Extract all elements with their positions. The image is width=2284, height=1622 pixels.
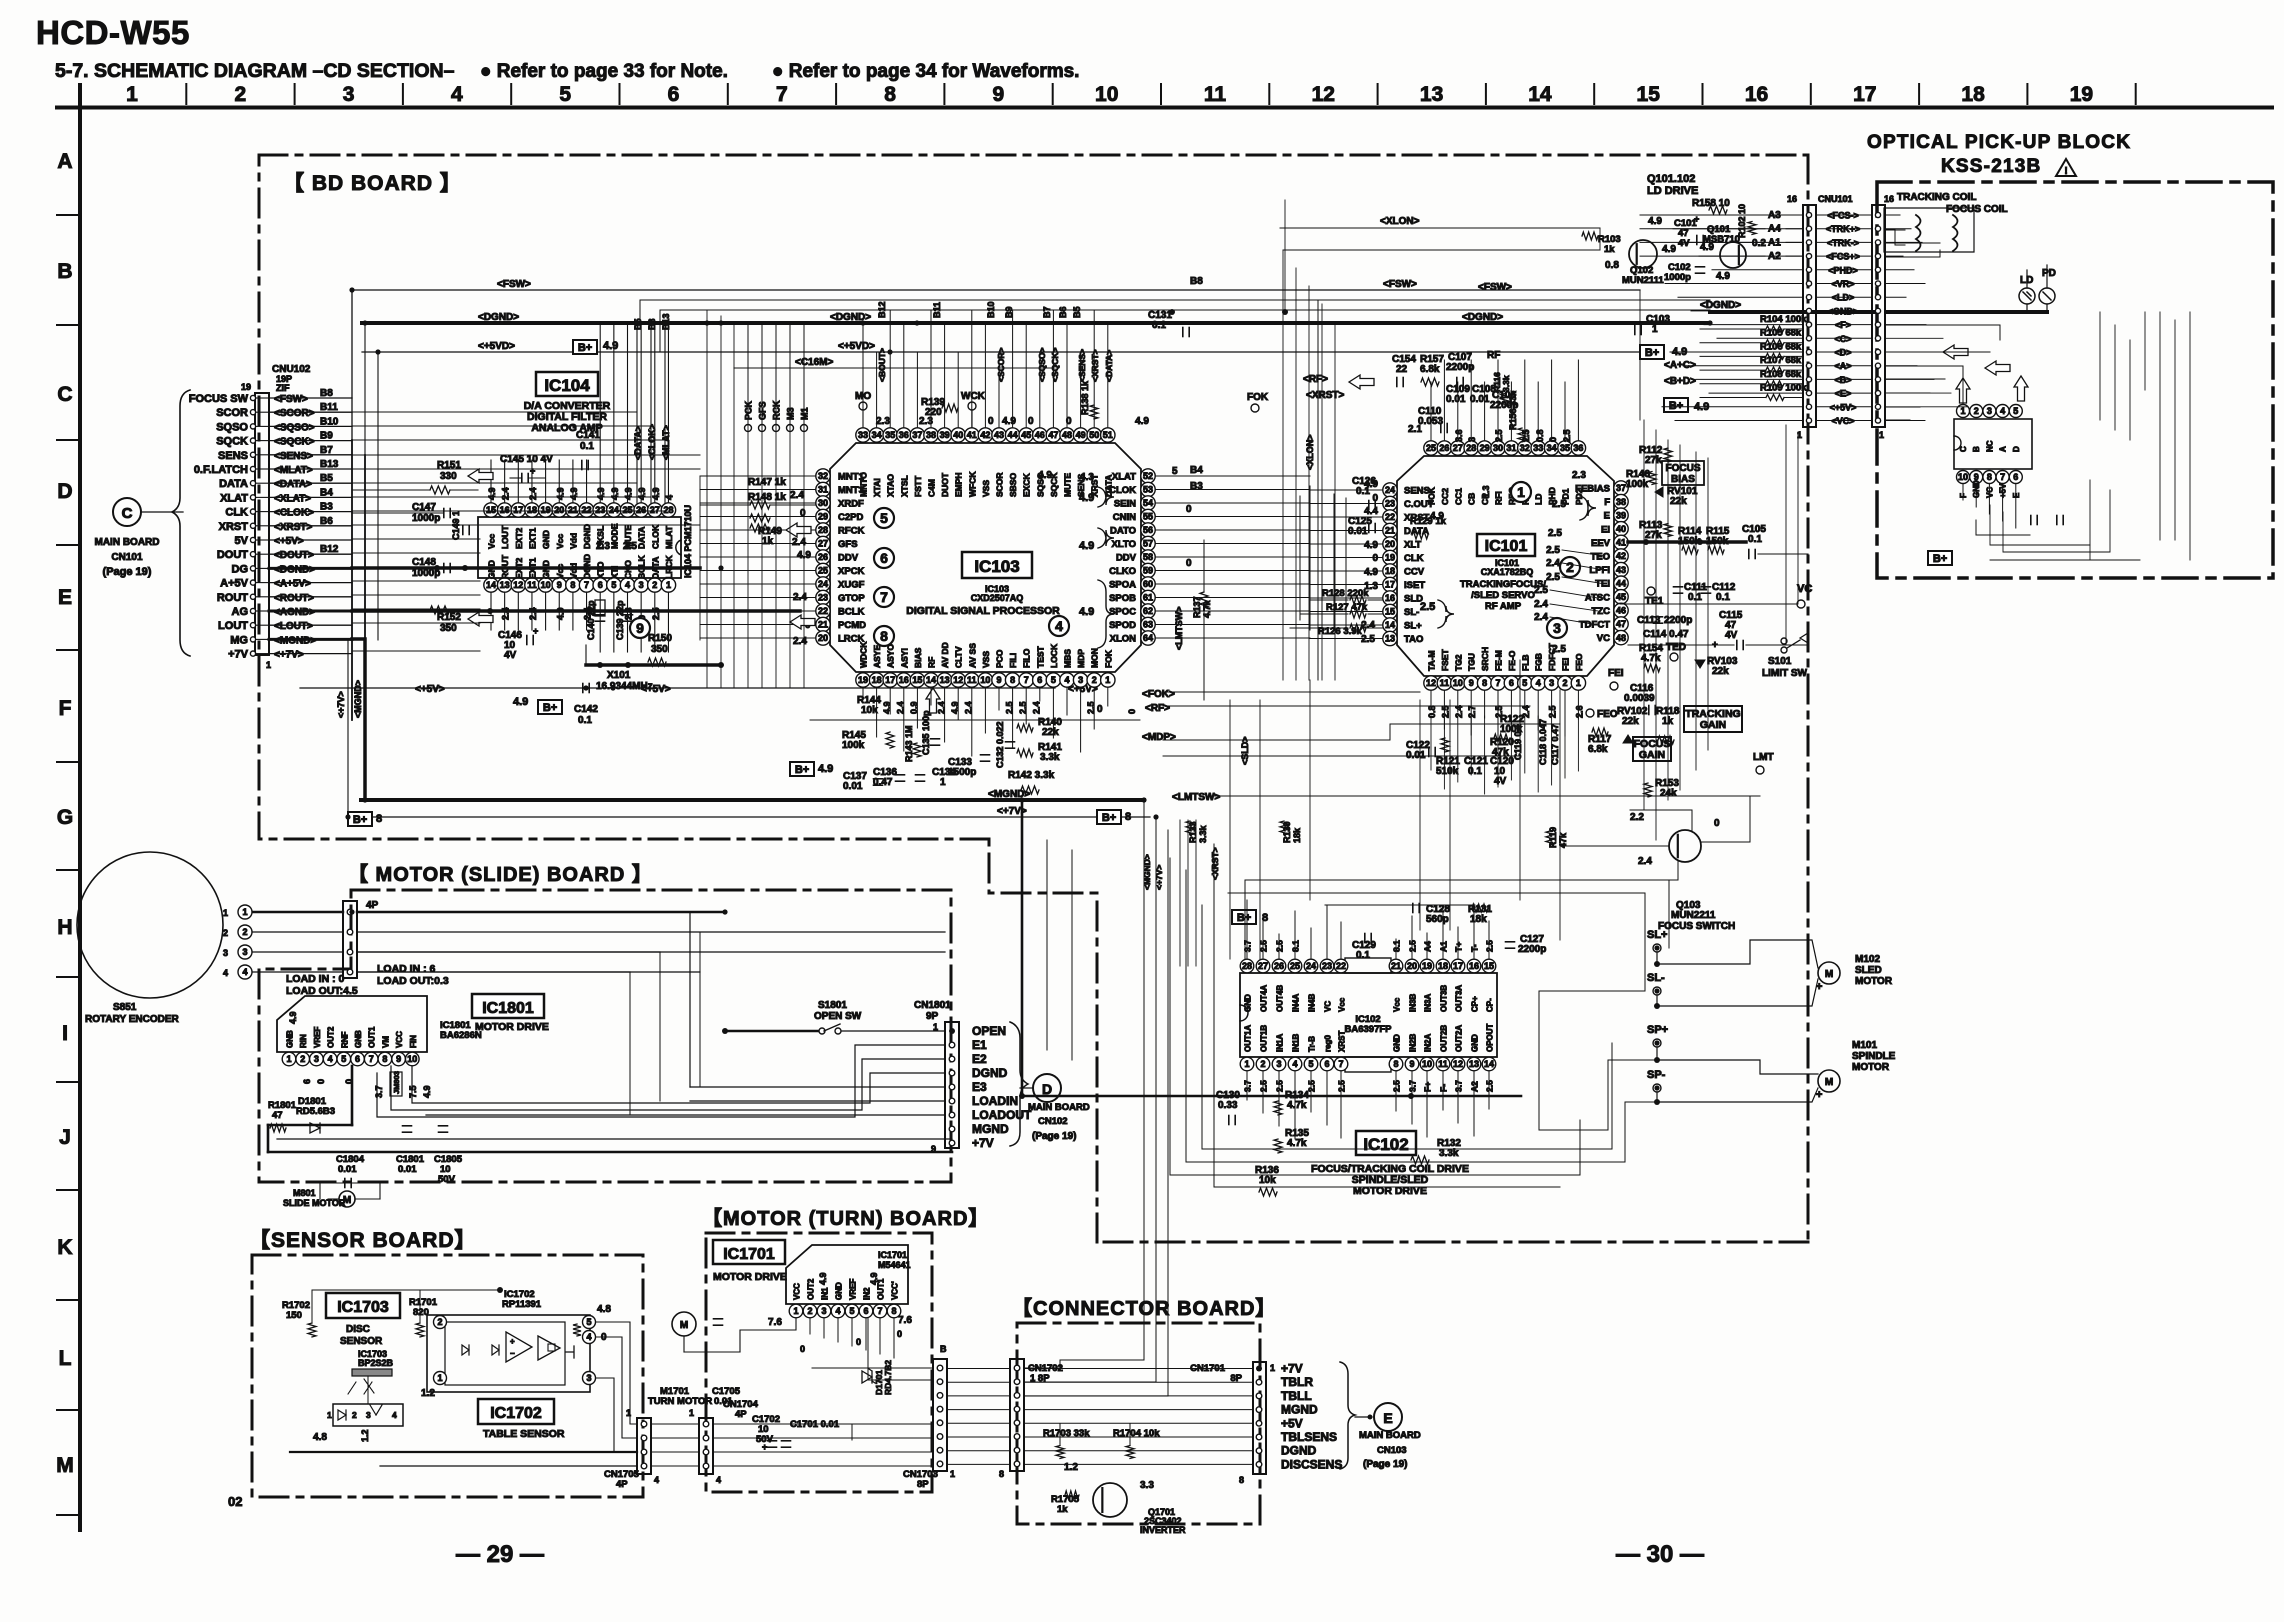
svg-text:IC103: IC103 — [974, 557, 1019, 576]
svg-text:Vdd: Vdd — [568, 563, 578, 579]
svg-text:SP+: SP+ — [1647, 1024, 1668, 1036]
svg-text:13: 13 — [1469, 1059, 1479, 1069]
svg-text:CNU101: CNU101 — [1818, 194, 1853, 204]
CN1801 pin MGND — [949, 1122, 1009, 1136]
svg-text:TEI: TEI — [1595, 579, 1610, 590]
IC103 pin 26 — [816, 550, 859, 564]
svg-text:C139 22p: C139 22p — [615, 600, 625, 640]
svg-text:4: 4 — [664, 495, 674, 500]
svg-text:40: 40 — [953, 430, 963, 440]
svg-text:FOCUS: FOCUS — [1666, 463, 1701, 474]
svg-text:18: 18 — [1438, 961, 1448, 971]
IC1701 pin 3 — [817, 1287, 831, 1318]
connector CN1704 4P — [689, 1399, 759, 1485]
svg-text:MLAT: MLAT — [664, 525, 674, 549]
svg-text:R109 100k: R109 100k — [1760, 383, 1807, 394]
svg-text:IN1: IN1 — [821, 1287, 830, 1300]
svg-text:10: 10 — [407, 1054, 417, 1064]
svg-text:8P: 8P — [917, 1479, 929, 1490]
svg-text:5: 5 — [559, 83, 571, 106]
svg-text:X101: X101 — [607, 670, 631, 681]
svg-text:3.3k: 3.3k — [1040, 752, 1060, 763]
svg-text:22: 22 — [1385, 512, 1395, 522]
svg-text:CNIN: CNIN — [1113, 512, 1136, 523]
svg-text:<XRST>: <XRST> — [1090, 349, 1100, 382]
svg-text:2.4: 2.4 — [1534, 612, 1548, 623]
resistor R136 10k — [1255, 1165, 1279, 1196]
CNU102 pin LOUT — [218, 620, 352, 632]
IC103 pin 48 — [1060, 428, 1074, 497]
svg-text:GND: GND — [541, 530, 551, 549]
svg-text:16: 16 — [1385, 593, 1395, 603]
svg-text:4.9: 4.9 — [1716, 271, 1730, 282]
svg-text:TRACKING COIL: TRACKING COIL — [1897, 192, 1976, 203]
svg-text:<SQCK>: <SQCK> — [274, 437, 315, 448]
svg-text:【SENSOR BOARD】: 【SENSOR BOARD】 — [249, 1229, 477, 1252]
svg-text:FEI: FEI — [1561, 658, 1571, 671]
svg-text:22: 22 — [818, 606, 828, 616]
svg-text:<LOUT>: <LOUT> — [274, 621, 313, 632]
CNJ101 pin <TRK-> — [1806, 238, 1880, 248]
svg-text:4.9: 4.9 — [1079, 540, 1094, 552]
optical block wires — [1884, 215, 2063, 535]
svg-text:XLON: XLON — [1110, 634, 1137, 645]
svg-text:15: 15 — [912, 675, 922, 685]
IC104 pin 8 — [566, 563, 580, 592]
svg-text:6: 6 — [863, 1306, 868, 1316]
IC103 top pin vertical wires — [863, 310, 1108, 427]
IC103 pin 42 — [978, 428, 992, 497]
IC101 pin 26 — [1437, 441, 1451, 505]
svg-text:8: 8 — [891, 1306, 896, 1316]
svg-text:1k: 1k — [1057, 1504, 1068, 1515]
svg-text:2.3: 2.3 — [1572, 470, 1586, 481]
IC103 pin 60 — [1109, 577, 1155, 591]
svg-text:22k: 22k — [1670, 496, 1687, 507]
terminal LMT — [1753, 752, 1774, 774]
resistor R112 27k — [1639, 445, 1672, 466]
svg-text:1: 1 — [1879, 430, 1884, 440]
IC101 pin 15 — [1383, 604, 1420, 618]
svg-text:LOADOUT: LOADOUT — [972, 1108, 1032, 1122]
svg-text:M: M — [1825, 1077, 1833, 1088]
svg-text:4P: 4P — [735, 1409, 747, 1420]
resistor R132 3.3k — [1411, 1138, 1461, 1164]
B+ symbol optical block — [1928, 551, 1952, 565]
IC104 label box — [536, 372, 598, 396]
svg-text:13: 13 — [500, 580, 510, 590]
wire +5V bus lower — [300, 684, 1098, 695]
svg-text:E2: E2 — [972, 1052, 987, 1066]
svg-text:B6: B6 — [1058, 306, 1068, 318]
svg-text:MOTOR: MOTOR — [1855, 976, 1893, 987]
CNJ101 pin <LD> — [1806, 293, 1880, 303]
svg-text:59: 59 — [1143, 566, 1153, 576]
svg-text:R138 1k: R138 1k — [1080, 380, 1090, 415]
svg-text:20: 20 — [818, 633, 828, 643]
svg-text:7: 7 — [584, 580, 589, 590]
svg-text:B3: B3 — [320, 502, 333, 513]
svg-text:ASYO: ASYO — [886, 644, 896, 668]
arrow left optical 1 — [1943, 345, 1968, 359]
resistor R139 220 — [921, 397, 958, 418]
svg-text:3: 3 — [639, 580, 644, 590]
IC103 pin 16 — [897, 648, 911, 687]
svg-text:R150: R150 — [648, 633, 672, 644]
IC102 top value labels — [1243, 940, 1495, 952]
svg-text:【MOTOR (TURN) BOARD】: 【MOTOR (TURN) BOARD】 — [702, 1207, 989, 1230]
svg-text:VC: VC — [1797, 583, 1812, 595]
svg-text:DISCSENS: DISCSENS — [1281, 1457, 1342, 1471]
svg-text:29: 29 — [818, 512, 828, 522]
svg-text:SCOR: SCOR — [216, 407, 248, 419]
svg-text:Vcc: Vcc — [487, 534, 497, 549]
circled digit 7 — [874, 587, 894, 607]
IC103 left pin wires to IC104 — [700, 476, 816, 638]
svg-text:C132 0.022: C132 0.022 — [995, 721, 1005, 768]
svg-text:LOAD OUT:0.3: LOAD OUT:0.3 — [377, 975, 449, 987]
IC103 pin 46 — [1033, 428, 1047, 497]
svg-text:VC: VC — [1597, 633, 1610, 644]
svg-text:OUT3B: OUT3B — [1440, 985, 1449, 1012]
svg-text:5: 5 — [1522, 678, 1527, 688]
wires IC102 routing loops — [1019, 800, 1669, 1187]
svg-text:2.4: 2.4 — [528, 487, 538, 500]
svg-text:4: 4 — [2000, 406, 2005, 416]
svg-text:32: 32 — [1520, 443, 1530, 453]
svg-text:0.01: 0.01 — [1348, 526, 1368, 537]
potentiometer RV102 22k — [1617, 706, 1648, 743]
svg-text:27k: 27k — [1645, 455, 1662, 466]
svg-text:4.9: 4.9 — [513, 696, 528, 708]
CN1701 pin TBLSENS — [1256, 1430, 1337, 1444]
svg-text:0: 0 — [1028, 416, 1034, 427]
resistor R103 1k — [1582, 232, 1621, 255]
svg-text:1: 1 — [437, 1373, 442, 1383]
svg-text:XPCK: XPCK — [838, 566, 865, 577]
svg-text:3.3k: 3.3k — [1439, 1148, 1459, 1159]
svg-text:0.1: 0.1 — [1748, 534, 1762, 545]
svg-text:SL-: SL- — [1404, 607, 1419, 618]
svg-text:48: 48 — [1616, 633, 1626, 643]
IC101 pin 4 — [1531, 653, 1545, 690]
svg-text:CXA1782BQ: CXA1782BQ — [1481, 567, 1534, 577]
svg-text:R104 100k: R104 100k — [1760, 314, 1807, 325]
svg-text:M: M — [1825, 969, 1833, 980]
svg-text:F: F — [59, 697, 72, 720]
svg-text:M102: M102 — [1855, 954, 1880, 965]
capacitor C1701 0.01 — [782, 1419, 840, 1447]
svg-text:<XRST>: <XRST> — [1210, 847, 1220, 880]
wire row F long — [810, 720, 1520, 756]
svg-text:0.1: 0.1 — [1356, 950, 1370, 961]
svg-text:TE1: TE1 — [1645, 596, 1664, 607]
svg-text:28: 28 — [818, 525, 828, 535]
svg-text:1k: 1k — [1604, 244, 1615, 255]
IC103 pin 28 — [816, 523, 865, 537]
svg-text:B4: B4 — [1190, 465, 1203, 476]
arrow PCMD left — [790, 615, 815, 629]
svg-text:2.5: 2.5 — [1552, 644, 1566, 655]
resistor R133 3.3k — [1186, 821, 1208, 843]
svg-text:DDV: DDV — [1116, 553, 1137, 564]
svg-text:41: 41 — [967, 430, 977, 440]
svg-text:TG2: TG2 — [1453, 654, 1463, 671]
svg-text:4: 4 — [716, 1475, 721, 1485]
wire bus MGND bold — [361, 789, 1144, 800]
net label RF XRST arrows — [1303, 374, 1374, 401]
svg-text:47: 47 — [1048, 430, 1058, 440]
jumper JM803 — [390, 1071, 402, 1096]
svg-text:<C>: <C> — [1834, 334, 1851, 344]
IC104 pin 28 — [661, 503, 675, 549]
svg-text:D: D — [57, 480, 72, 503]
main board connector E circle — [1355, 1403, 1421, 1470]
svg-text:TBLSENS: TBLSENS — [1281, 1430, 1337, 1444]
resistor R148 1k — [748, 492, 806, 522]
svg-text:14: 14 — [1528, 83, 1552, 106]
svg-text:0.33: 0.33 — [1218, 1100, 1238, 1111]
svg-text:4V: 4V — [1678, 238, 1690, 249]
svg-text:SRCH: SRCH — [1480, 647, 1490, 671]
svg-text:<DGND>: <DGND> — [830, 312, 871, 323]
IC103 pin 39 — [937, 428, 951, 497]
svg-text:21: 21 — [818, 620, 828, 630]
svg-text:4.9: 4.9 — [603, 340, 618, 352]
connector CNU102 19P ZIF — [241, 364, 311, 670]
svg-text:B: B — [57, 260, 72, 283]
svg-text:GNB: GNB — [286, 1030, 295, 1048]
IC103 pin 23 — [816, 590, 866, 604]
svg-text:<XRST>: <XRST> — [274, 522, 313, 533]
svg-text:GTOP: GTOP — [838, 593, 865, 604]
svg-text:23: 23 — [818, 593, 828, 603]
svg-text:OPEN SW: OPEN SW — [814, 1011, 862, 1022]
potentiometer RV101 22k — [1655, 486, 1698, 507]
svg-text:DDV: DDV — [838, 553, 859, 564]
svg-text:TA-M: TA-M — [1427, 650, 1437, 671]
capacitor C145 10 4V — [500, 454, 553, 483]
terminal SP+ — [1647, 1024, 1668, 1047]
svg-text:OPEN: OPEN — [972, 1024, 1006, 1038]
IC102 description — [1311, 1163, 1469, 1197]
svg-text:MDP: MDP — [1076, 649, 1086, 668]
svg-text:2: 2 — [1974, 406, 1979, 416]
terminal FOK mid — [1247, 392, 1269, 412]
svg-text:FSTT: FSTT — [913, 475, 923, 497]
IC104 pin 15 — [484, 503, 498, 549]
svg-text:3.3: 3.3 — [1140, 1480, 1154, 1491]
svg-text:18: 18 — [872, 675, 882, 685]
CNU102 pin DG — [232, 563, 353, 575]
svg-text:M: M — [56, 1454, 74, 1477]
svg-text:27k: 27k — [1645, 530, 1662, 541]
svg-text:C135 100p: C135 100p — [921, 710, 931, 755]
svg-text:OUT1A: OUT1A — [1244, 1025, 1253, 1052]
svg-text:36: 36 — [1573, 443, 1583, 453]
svg-text:EXT2: EXT2 — [514, 527, 524, 549]
svg-text:3: 3 — [1549, 678, 1554, 688]
spindle motor M101 — [1816, 1040, 1896, 1101]
wire XLON top — [1280, 216, 1600, 228]
CNJ101 pin <B> — [1806, 375, 1880, 385]
svg-text:B+: B+ — [795, 764, 809, 776]
IC103 pin 18 — [869, 645, 883, 688]
capacitor C1804 0.01 — [310, 1154, 380, 1188]
CNJ101 pin <E> — [1806, 389, 1880, 399]
svg-text:4.9: 4.9 — [818, 763, 833, 775]
IC104 pin 18 — [525, 503, 539, 549]
svg-text:16: 16 — [1787, 194, 1797, 204]
svg-text:2: 2 — [1260, 1059, 1265, 1069]
svg-text:C.OUT: C.OUT — [1404, 499, 1434, 510]
svg-text:0.8: 0.8 — [1535, 429, 1545, 442]
svg-text:0: 0 — [856, 1337, 861, 1347]
svg-text:LOUT: LOUT — [218, 620, 248, 632]
svg-text:VCC: VCC — [395, 1031, 404, 1048]
svg-text:<+7V>: <+7V> — [274, 650, 304, 661]
IC102 pin 8 — [1389, 1034, 1403, 1071]
svg-text:<+5VD>: <+5VD> — [838, 341, 875, 352]
svg-text:<A+5V>: <A+5V> — [274, 579, 311, 590]
IC104 pin 13 — [497, 554, 511, 592]
svg-text:VREF: VREF — [849, 1279, 858, 1300]
svg-text:1000p: 1000p — [1664, 272, 1691, 283]
capacitor C1702 10 50V — [752, 1414, 780, 1452]
svg-text:7.6: 7.6 — [898, 1315, 912, 1326]
svg-text:0.1: 0.1 — [1688, 592, 1702, 603]
svg-text:38: 38 — [1616, 497, 1626, 507]
IC103 pin 37 — [910, 428, 924, 497]
svg-text:<LD>: <LD> — [1832, 293, 1855, 303]
svg-text:EEV: EEV — [1591, 538, 1611, 549]
resistor R152 350 — [352, 606, 490, 634]
svg-text:9: 9 — [1469, 678, 1474, 688]
svg-text:17: 17 — [1453, 961, 1463, 971]
CN1801 pin E3 — [949, 1080, 987, 1094]
IC103 pin 61 — [1109, 590, 1155, 604]
terminal M0 — [855, 391, 871, 427]
svg-text:OPTICAL PICK-UP BLOCK: OPTICAL PICK-UP BLOCK — [1867, 132, 2131, 153]
svg-text:H: H — [57, 916, 72, 939]
svg-text:C2PD: C2PD — [838, 512, 863, 523]
svg-text:−: − — [510, 1349, 515, 1358]
svg-text:0.01: 0.01 — [398, 1164, 417, 1175]
IC104 pin 20 — [552, 503, 566, 549]
svg-text:10: 10 — [980, 675, 990, 685]
svg-text:— 29 —: — 29 — — [456, 1541, 544, 1568]
arrow BCLK left — [786, 523, 811, 537]
svg-text:1: 1 — [223, 908, 228, 918]
connector board outline — [1017, 1323, 1260, 1524]
svg-text:<RF>: <RF> — [1303, 374, 1328, 385]
CNU102 pin FOCUS SW — [189, 388, 352, 405]
svg-text:3: 3 — [1987, 406, 1992, 416]
svg-text:B+: B+ — [1933, 553, 1947, 565]
svg-text:C145 10 4V: C145 10 4V — [500, 454, 553, 465]
svg-text:HCD-W55: HCD-W55 — [36, 14, 190, 51]
svg-text:30: 30 — [818, 498, 828, 508]
svg-text:50V: 50V — [438, 1174, 456, 1185]
svg-text:LOAD IN : 0: LOAD IN : 0 — [286, 973, 344, 985]
svg-text:E: E — [1383, 1410, 1392, 1426]
svg-text:11: 11 — [1440, 678, 1450, 688]
svg-text:RP11391: RP11391 — [502, 1299, 542, 1310]
svg-text:1: 1 — [327, 1410, 332, 1420]
svg-text:24k: 24k — [1660, 788, 1677, 799]
svg-text:<DATA>: <DATA> — [274, 479, 312, 490]
svg-text:0: 0 — [1186, 558, 1192, 569]
svg-text:62: 62 — [1143, 606, 1153, 616]
svg-text:M54641: M54641 — [878, 1260, 911, 1270]
IC102 pin 23 — [1320, 959, 1334, 1012]
svg-text:ZIF: ZIF — [276, 383, 290, 393]
svg-text:17: 17 — [885, 675, 895, 685]
svg-text:4.9: 4.9 — [1648, 216, 1662, 227]
svg-text:MUTE: MUTE — [1063, 473, 1073, 497]
svg-text:R105 68k: R105 68k — [1760, 328, 1802, 339]
svg-text:57: 57 — [1143, 539, 1153, 549]
svg-text:E3: E3 — [972, 1080, 987, 1094]
CNU102 pin 0.F.LATCH — [194, 459, 352, 476]
svg-text:4.9: 4.9 — [610, 487, 620, 500]
svg-text:15: 15 — [486, 505, 496, 515]
svg-text:VREF: VREF — [313, 1027, 322, 1048]
svg-text:2.5: 2.5 — [1546, 545, 1560, 556]
svg-text:SENS: SENS — [1404, 486, 1430, 497]
svg-text:1: 1 — [266, 660, 271, 670]
svg-text:0: 0 — [800, 1344, 805, 1354]
svg-text:17: 17 — [513, 505, 523, 515]
CN1701 pin TBLR — [1256, 1375, 1313, 1389]
svg-text:4: 4 — [242, 967, 247, 977]
svg-text:LPFI: LPFI — [1589, 565, 1610, 576]
svg-text:FEO: FEO — [1574, 653, 1584, 671]
svg-text:4.9: 4.9 — [1700, 242, 1714, 253]
svg-text:<FSW>: <FSW> — [1478, 282, 1512, 293]
svg-text:30: 30 — [1493, 443, 1503, 453]
svg-text:TDFCT: TDFCT — [1579, 620, 1610, 631]
resistor R142 3.3k — [1008, 770, 1055, 794]
resistor R119 47k — [1546, 827, 1568, 848]
svg-text:BIAS: BIAS — [1671, 474, 1695, 485]
svg-text:FOK: FOK — [1103, 649, 1113, 668]
wire bus row B upper — [640, 300, 1710, 352]
potentiometer RV103 22k — [1695, 656, 1738, 677]
IC101 pin 20 — [1383, 537, 1422, 551]
IC104 pin 25 — [620, 503, 634, 549]
IC102 pin 14 — [1482, 1023, 1496, 1070]
IC102 pin 12 — [1451, 1025, 1465, 1071]
svg-text:● Refer to page 34 for Wavefor: ● Refer to page 34 for Waveforms. — [772, 61, 1079, 82]
svg-text:9P: 9P — [926, 1011, 939, 1022]
IC104 pin 2 — [648, 557, 662, 593]
svg-text:FEO: FEO — [1597, 709, 1618, 720]
wires CNU102 rows to IC104 columns — [352, 412, 700, 651]
IC104 pin 14 — [484, 560, 498, 592]
IC102 pin 10 — [1420, 1034, 1434, 1071]
svg-text:<SQCK>: <SQCK> — [1050, 347, 1060, 382]
svg-text:10k: 10k — [861, 705, 878, 716]
svg-text:<BOUT>: <BOUT> — [877, 348, 887, 382]
svg-text:8: 8 — [1482, 678, 1487, 688]
svg-text:(Page 19): (Page 19) — [1032, 1131, 1076, 1142]
IC102 body BA6397FP — [1240, 958, 1497, 1072]
svg-text:8: 8 — [884, 83, 896, 106]
IC103 pin 53 — [1109, 482, 1155, 496]
wire DGND bold run — [352, 565, 700, 571]
svg-text:100k: 100k — [842, 740, 865, 751]
